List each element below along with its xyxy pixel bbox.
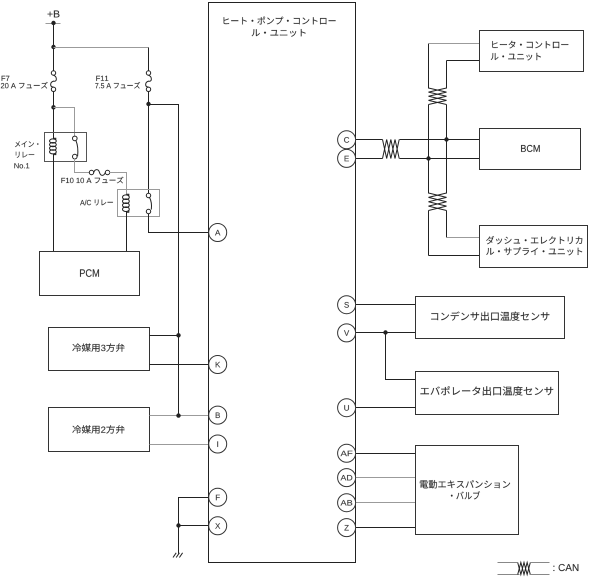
CAN legend twisted pair xyxy=(498,562,518,564)
wire terminal S to condenser sensor xyxy=(356,304,416,306)
main relay switch xyxy=(73,136,78,141)
wire F11 to A/C relay switch xyxy=(148,92,150,194)
wire F7 to main relay coil xyxy=(53,92,55,140)
terminal I xyxy=(209,435,227,453)
junction CAN-H at BCM feed xyxy=(444,137,448,141)
terminal C xyxy=(338,131,356,149)
heat pump control unit box xyxy=(209,3,356,563)
evaporator outlet temp sensor box xyxy=(416,372,559,415)
terminal B xyxy=(209,406,227,424)
wire terminal U to evaporator sensor xyxy=(356,407,416,409)
terminal X xyxy=(209,517,227,535)
label 3-way valve xyxy=(72,343,124,351)
terminal F xyxy=(209,488,227,506)
condenser outlet temp sensor box xyxy=(416,297,565,339)
twisted pair C/E xyxy=(383,140,400,159)
wire F10 to A/C relay coil xyxy=(110,173,127,196)
CAN bus right vertical xyxy=(446,61,448,89)
label F11 xyxy=(96,76,108,81)
wire F7 junction to relay switch xyxy=(54,108,75,137)
label CAN legend xyxy=(553,564,578,571)
wire A/C relay coil to PCM xyxy=(126,212,128,252)
label F10 xyxy=(61,177,123,184)
junction V branch xyxy=(383,330,387,334)
wire CAN to dash supply upper xyxy=(447,237,480,239)
wire CAN to heater control upper xyxy=(429,43,480,45)
wire 3-way valve to solenoid bus xyxy=(150,335,179,337)
junction solenoid bus lower xyxy=(176,413,180,417)
terminal U xyxy=(338,399,356,417)
refrigerant 3-way valve box xyxy=(49,328,150,371)
PCM box xyxy=(40,252,140,296)
wire branch to fuse F11 xyxy=(148,48,150,71)
fuse F10 xyxy=(89,170,93,174)
terminal E xyxy=(338,149,356,167)
electric expansion valve box xyxy=(416,446,519,535)
wire main relay coil to PCM xyxy=(53,154,55,252)
wire 3-way valve to terminal K xyxy=(150,364,209,366)
wire terminal Z to expansion valve xyxy=(356,527,416,529)
fuse F11 xyxy=(146,71,150,75)
A/C relay box xyxy=(118,190,160,217)
label heat pump control unit xyxy=(224,17,336,25)
wire 2-way valve to terminal I xyxy=(150,444,209,446)
A/C relay coil xyxy=(127,194,129,212)
main relay coil xyxy=(54,138,56,154)
label A/C relay xyxy=(80,200,113,206)
wire F11 junction to solenoid bus xyxy=(149,105,179,416)
wire +B vertical feed xyxy=(53,24,55,71)
main relay No.1 box xyxy=(45,133,87,162)
label condenser outlet temp sensor xyxy=(431,312,549,321)
dash electrical supply unit box xyxy=(480,226,588,268)
refrigerant 2-way valve box xyxy=(49,408,150,452)
junction F11 output xyxy=(146,102,150,106)
ground xyxy=(173,553,183,558)
label dash electrical supply unit xyxy=(486,236,582,244)
terminal A xyxy=(209,224,227,242)
twisted pair CAN upper xyxy=(429,88,447,105)
heater control unit box xyxy=(480,31,584,72)
CAN bus left vertical xyxy=(428,44,430,89)
wire terminal C to CAN bus xyxy=(356,139,383,141)
wire terminal V to condenser sensor xyxy=(356,332,416,334)
wire to F11 branch xyxy=(54,47,149,49)
wire terminal AD to expansion valve xyxy=(356,477,416,479)
node +B (battery) xyxy=(48,11,60,18)
wire CAN to heater control lower xyxy=(447,60,480,62)
terminal Z xyxy=(338,519,356,537)
label 2-way valve xyxy=(72,425,124,433)
terminal AB xyxy=(338,494,356,512)
wire ground branch to terminal X xyxy=(179,525,209,527)
terminal AD xyxy=(338,469,356,487)
terminal S xyxy=(338,296,356,314)
terminal AF xyxy=(338,444,356,462)
label BCM xyxy=(521,145,540,152)
BCM box xyxy=(480,129,581,170)
junction solenoid bus upper xyxy=(176,333,180,337)
wire CAN to dash supply lower xyxy=(429,255,480,257)
junction ground branch xyxy=(176,523,180,527)
wire 2-way valve to terminal B xyxy=(150,415,209,417)
junction CAN-L at BCM feed xyxy=(426,156,430,160)
label evaporator outlet temp sensor xyxy=(420,386,553,395)
label PCM xyxy=(80,269,99,277)
wire terminal F to ground branch xyxy=(179,498,209,526)
terminal V xyxy=(338,324,356,342)
wire V branch to evaporator sensor xyxy=(386,333,416,380)
wire terminal E to CAN bus xyxy=(356,158,383,160)
label electric expansion valve xyxy=(420,480,510,488)
wire main relay switch to F10 xyxy=(75,159,90,173)
twisted pair CAN lower xyxy=(429,193,447,211)
label heater control unit xyxy=(492,41,568,49)
terminal K xyxy=(209,356,227,374)
junction F7 output xyxy=(51,105,55,109)
wire to ground xyxy=(178,526,180,554)
label main relay xyxy=(15,141,39,147)
wire terminal AB to expansion valve xyxy=(356,502,416,504)
A/C relay switch xyxy=(146,193,150,197)
wire A/C relay switch to terminal A xyxy=(149,214,209,233)
wire terminal AF to expansion valve xyxy=(356,453,416,455)
label F7 xyxy=(2,76,10,81)
junction battery feed split xyxy=(51,45,55,49)
fuse F7 xyxy=(51,71,55,75)
